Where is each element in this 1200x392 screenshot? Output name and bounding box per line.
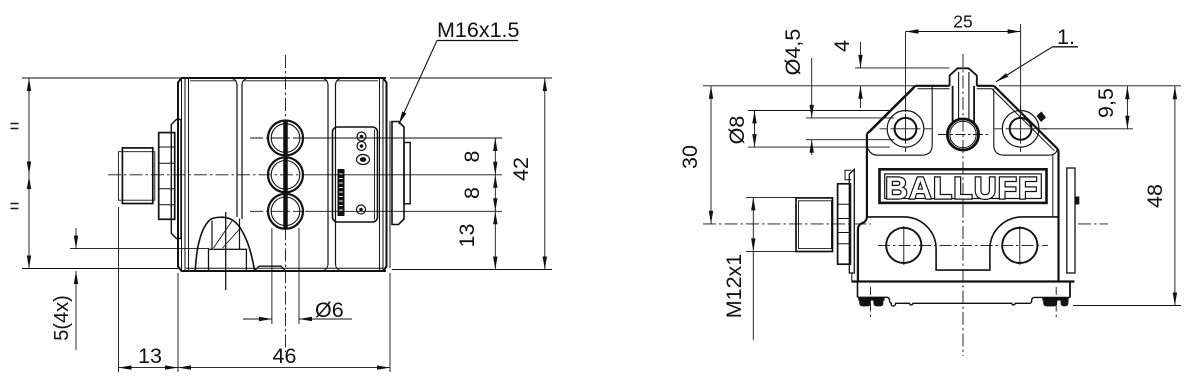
cutaway dome xyxy=(195,217,254,270)
hole extension lines right xyxy=(303,138,502,211)
M16x1.5 underline xyxy=(437,40,518,42)
9,5 extension line xyxy=(1042,128,1133,130)
4-dim tip extension line xyxy=(855,67,950,69)
body top edge inner line xyxy=(190,80,378,82)
right edge inner line xyxy=(1052,155,1054,216)
13 arrows xyxy=(119,365,132,369)
equal symbol lower xyxy=(11,204,19,209)
bottom edge extension line xyxy=(22,268,178,270)
M12 connector nut xyxy=(838,184,851,264)
8-dim upper line xyxy=(494,138,496,175)
hole circle 2 outer xyxy=(268,157,303,192)
48-dim line xyxy=(1174,86,1176,305)
right foot pad B xyxy=(1061,300,1069,307)
plunger tip xyxy=(950,68,977,86)
M16 cap ring xyxy=(404,143,410,204)
left shoulder inner slant xyxy=(870,89,914,133)
svg-text:M16x1.5: M16x1.5 xyxy=(437,18,520,42)
hole 3 slot bar xyxy=(283,195,288,229)
diameter4,5-dim lines xyxy=(811,58,813,155)
bottom holes horizontal centerline xyxy=(878,244,1048,246)
svg-text:46: 46 xyxy=(273,344,297,368)
M12 connector thread root xyxy=(799,201,832,249)
top edge inner line xyxy=(918,88,993,90)
left foot pad B xyxy=(873,300,883,307)
M16x1.5 leader xyxy=(399,41,437,125)
5(4x) dimension lower line and arrow xyxy=(75,271,77,350)
groove fillets x=328/335.5 xyxy=(323,79,341,271)
right cap nub xyxy=(1075,197,1080,205)
nub on right slant xyxy=(1037,112,1047,123)
right boss outline xyxy=(994,89,1058,156)
BALLUFF plate outer xyxy=(880,169,1047,203)
hole circle 2 inner xyxy=(271,161,300,190)
svg-text:48: 48 xyxy=(1143,184,1167,208)
label plate inner edge xyxy=(374,130,376,220)
hole circle 3 outer xyxy=(268,194,303,229)
bottom-right hole xyxy=(1002,228,1037,263)
left cap plate xyxy=(849,170,854,274)
plate screw top B xyxy=(357,142,366,151)
top-right hole inner xyxy=(1010,118,1032,140)
hole circle 3 inner xyxy=(271,197,300,226)
M16 cap slab xyxy=(392,122,404,225)
diameter8-dim line xyxy=(754,111,756,148)
left body edge with jog xyxy=(858,134,867,281)
30-dim line xyxy=(710,86,712,224)
diameter4,5 extension lines xyxy=(806,118,894,140)
25 extension lines xyxy=(906,24,1021,112)
46 left extension line xyxy=(177,273,179,372)
diameter6 extension lines xyxy=(272,228,299,324)
5(4x) dimension upper arrow xyxy=(75,228,77,249)
body left wall outer line with chamfers xyxy=(178,78,182,271)
hole circle 1 outer xyxy=(268,121,303,156)
BALLUFF plate inner xyxy=(885,174,1042,199)
groove top fillets x=237/242 xyxy=(232,79,247,86)
M12x1 extension lines xyxy=(746,197,797,251)
left foot pad A xyxy=(859,300,871,307)
svg-text:9,5: 9,5 xyxy=(1094,88,1118,118)
48 bottom extension line xyxy=(1073,305,1181,307)
hole 1 horizontal centerline xyxy=(250,137,335,139)
right foot black bar xyxy=(1042,297,1068,301)
left cap tail xyxy=(851,273,853,282)
M12x1-dim line xyxy=(752,197,754,340)
bottom-left hole cross vertical xyxy=(903,226,905,265)
diameter8 extension lines xyxy=(748,111,890,148)
svg-text:5(4x): 5(4x) xyxy=(51,295,73,341)
left shoulder slant xyxy=(867,86,915,134)
plunger slot lines xyxy=(959,72,969,120)
right cap plate xyxy=(1067,168,1075,273)
top-left hole cross xyxy=(880,106,932,153)
dim line 13/46 xyxy=(119,367,391,369)
svg-text:Ø4,5: Ø4,5 xyxy=(781,29,805,76)
foot profile xyxy=(858,297,1071,306)
body left wall inner lines xyxy=(182,78,189,271)
svg-text:Ø6: Ø6 xyxy=(315,298,344,322)
foot centerline left xyxy=(870,287,872,319)
bottom-left hole xyxy=(886,228,921,263)
svg-text:8: 8 xyxy=(460,150,484,162)
top edge right extension xyxy=(390,77,552,79)
foot centerline right xyxy=(1055,287,1057,319)
body right wall lines xyxy=(380,78,391,271)
center hole inner xyxy=(950,121,976,147)
right shoulder inner slant xyxy=(992,89,1054,151)
right body edge xyxy=(1057,148,1059,281)
svg-text:1.: 1. xyxy=(1057,25,1075,49)
vertical centerline xyxy=(962,54,964,356)
body bottom edge xyxy=(852,280,1075,282)
right shoulder slant xyxy=(994,86,1057,148)
plate screw top A xyxy=(357,132,366,141)
foot sides xyxy=(857,282,859,298)
13 extension line xyxy=(118,207,120,372)
left foot black bar xyxy=(858,297,884,301)
connector thread root rectangle xyxy=(118,152,154,201)
cutaway hatch lines xyxy=(214,221,242,248)
svg-text:8: 8 xyxy=(460,187,484,199)
lower pocket contour xyxy=(867,217,1059,270)
svg-text:4: 4 xyxy=(830,40,854,52)
4-dim lines xyxy=(860,42,862,108)
connector hex nut xyxy=(159,133,175,220)
5(4x) hole center extension line xyxy=(70,248,209,250)
svg-text:13: 13 xyxy=(455,224,479,248)
cutaway hole rectangle xyxy=(209,249,247,271)
body section groove lines x=328/335.5 xyxy=(328,84,336,265)
top edge extension line xyxy=(22,77,181,79)
cutaway hole axis line xyxy=(225,212,227,290)
cutaway bore walls xyxy=(212,219,240,250)
equal symbol upper xyxy=(11,124,19,129)
42-dim line xyxy=(544,78,546,270)
top-left hole outer xyxy=(887,111,924,148)
connector washer plate xyxy=(171,119,181,238)
plunger shaft lines xyxy=(953,86,975,123)
8-dim lower line xyxy=(494,175,496,212)
svg-text:42: 42 xyxy=(509,157,533,181)
left boss outline xyxy=(868,87,932,156)
M16x1.5 leader arrow xyxy=(399,112,407,125)
plate LED xyxy=(357,155,370,165)
46 arrows xyxy=(178,365,191,369)
hole 1 slot bar xyxy=(283,121,288,155)
top edge extension line long xyxy=(703,85,915,87)
plate screw bottom xyxy=(357,205,366,214)
body bottom edge xyxy=(181,270,386,272)
top edge xyxy=(915,85,994,87)
svg-text:BALLUFF: BALLUFF xyxy=(885,171,1038,206)
46 right extension line xyxy=(389,273,391,372)
top-right hole cross xyxy=(995,106,1047,153)
hole circle 1 inner xyxy=(271,124,300,153)
center hole outer ring xyxy=(947,119,978,150)
callout 1. underline xyxy=(1053,46,1079,48)
bottom-right hole cross vertical xyxy=(1019,226,1021,265)
body right wall outer line xyxy=(383,78,387,271)
13-dim right line xyxy=(494,211,496,269)
bottom edge right extension xyxy=(392,269,552,271)
body bottom inner line xyxy=(186,267,383,269)
equal-dim arrows xyxy=(27,78,31,91)
M12 nut face lines xyxy=(838,204,851,243)
callout 1. arrow xyxy=(996,73,1008,82)
right foot pad A xyxy=(1043,300,1057,307)
bottom notch xyxy=(255,266,286,271)
M12 connector centerline xyxy=(703,223,1108,225)
hole 2 slot bar xyxy=(283,158,288,192)
callout 1. leader xyxy=(996,47,1053,82)
connector thread crest rectangle xyxy=(122,148,152,204)
top-left hole inner xyxy=(895,118,917,140)
svg-text:30: 30 xyxy=(678,145,702,169)
connector / hole 2 centerline xyxy=(108,174,303,176)
right foot side xyxy=(1069,282,1071,298)
svg-text:13: 13 xyxy=(138,344,162,368)
svg-text:25: 25 xyxy=(953,12,972,32)
label plate xyxy=(333,127,378,222)
center hole horizontal centerline xyxy=(938,134,988,136)
left edge small tab xyxy=(845,170,851,180)
hole 3 horizontal centerline xyxy=(250,210,303,212)
vertical centerline of holes xyxy=(285,55,287,352)
25-dim line xyxy=(906,31,1021,33)
plate BALLUFF strip xyxy=(338,169,345,216)
svg-text:Ø8: Ø8 xyxy=(725,116,749,145)
diameter6 dim lines and arrows xyxy=(243,318,352,320)
M12 connector thread crest xyxy=(796,198,833,252)
equal-dim vertical line xyxy=(28,78,30,269)
top-right hole outer xyxy=(1002,111,1039,148)
9,5-dim line xyxy=(1126,86,1128,129)
svg-text:M12x1: M12x1 xyxy=(722,254,746,319)
top-right extension line xyxy=(999,85,1181,87)
body section groove lines x=237/242 xyxy=(237,84,242,219)
body top edge xyxy=(181,77,386,79)
connector hex nut face lines xyxy=(159,147,175,205)
